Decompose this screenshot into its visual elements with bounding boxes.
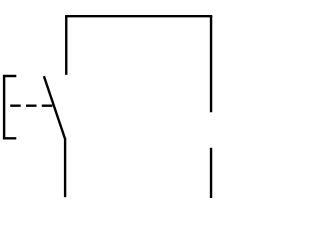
wire: left vertical lead to switch upper terminal (65, 16, 67, 75)
wire: right vertical branch, lower segment (210, 148, 212, 198)
wire: top horizontal bus (65, 15, 212, 17)
wire: lower terminal lead of switch (64, 138, 66, 197)
wire: right vertical branch, upper segment (210, 16, 212, 112)
switch S1 contact blade (normally-open moving contact) (44, 76, 65, 139)
manual operator (push-button actuator bracket) (4, 76, 16, 138)
mechanical link (dashed) between operator and contact blade (10, 104, 52, 106)
